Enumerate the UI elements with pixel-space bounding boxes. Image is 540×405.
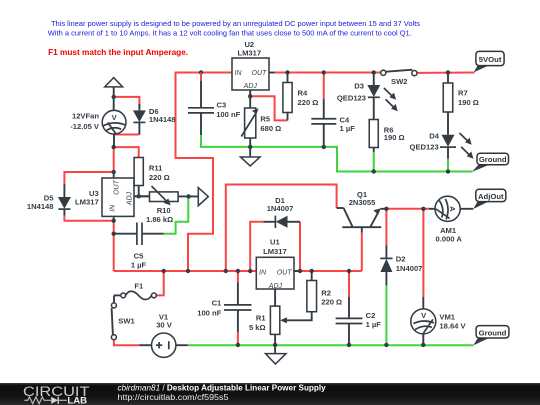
svg-text:1 µF: 1 µF <box>340 124 356 133</box>
resistor R11 <box>134 158 170 197</box>
wire rail to D1 anode <box>250 222 263 271</box>
voltage source V1 30 V <box>140 313 188 358</box>
svg-text:AdjOut: AdjOut <box>478 192 504 201</box>
node C5 left node <box>112 232 116 236</box>
diode D2 1N4007 <box>380 246 422 286</box>
svg-text:F1: F1 <box>134 281 144 290</box>
node C3-U2 IN node <box>199 70 203 74</box>
resistor R10 (rheostat) <box>134 186 198 224</box>
svg-text:SW1: SW1 <box>118 317 135 326</box>
capacitor C1 <box>197 282 251 332</box>
svg-text:IN: IN <box>235 70 243 77</box>
svg-text:680 Ω: 680 Ω <box>260 124 281 133</box>
voltmeter FAN1 12VFan <box>70 87 126 147</box>
switch SW2 <box>381 70 417 87</box>
transistor Q1 2N3055 <box>337 190 387 232</box>
svg-text:R1: R1 <box>256 314 266 323</box>
svg-text:1N4007: 1N4007 <box>396 264 423 273</box>
svg-text:QED123: QED123 <box>410 142 439 151</box>
svg-text:1 µF: 1 µF <box>131 260 147 269</box>
diode D6 1N4148 <box>133 104 176 135</box>
svg-text:ADJ: ADJ <box>243 83 258 90</box>
svg-text:IN: IN <box>109 204 116 212</box>
diode D1 1N4007 <box>263 196 300 228</box>
arrow terminal above fan <box>105 78 123 87</box>
wire VM1 top branch <box>422 209 424 297</box>
node D1 cathode node <box>298 269 302 273</box>
svg-text:-12.05 V: -12.05 V <box>70 122 100 131</box>
wire SW2 to 5VOut flag <box>417 72 475 74</box>
wire D1 cathode down to U1 OUT node <box>299 222 301 271</box>
svg-text:5VOut: 5VOut <box>479 55 502 64</box>
svg-text:1.86 kΩ: 1.86 kΩ <box>146 215 173 224</box>
svg-text:18.64 V: 18.64 V <box>439 322 466 331</box>
svg-text:http://circuitlab.com/cf595s5: http://circuitlab.com/cf595s5 <box>118 393 230 402</box>
svg-text:R2: R2 <box>321 289 331 298</box>
node D3 top node <box>372 70 376 74</box>
svg-text:12VFan: 12VFan <box>72 112 99 121</box>
wire Q1 base down <box>361 233 363 271</box>
resistor R4 <box>283 73 318 121</box>
wire rail to Q1 collector <box>226 185 337 272</box>
wire ground rail from C3 to Ground flag <box>201 135 473 171</box>
wire fan bottom to D6 bottom <box>114 134 139 136</box>
regulator U3 LM317 (rotated) <box>75 172 149 221</box>
capacitor C3 <box>188 73 241 136</box>
svg-text:OUT: OUT <box>277 270 293 277</box>
svg-text:2N3055: 2N3055 <box>349 198 376 207</box>
node Q1 emitter node <box>384 207 388 211</box>
svg-text:LM317: LM317 <box>75 197 99 206</box>
flag Ground <box>472 153 508 172</box>
node D4 ground node <box>446 169 450 173</box>
node C4 bottom node <box>322 145 326 149</box>
svg-text:190 Ω: 190 Ω <box>384 133 405 142</box>
svg-text:D3: D3 <box>354 82 364 91</box>
svg-text:30 V: 30 V <box>156 320 173 329</box>
resistor R5 (rheostat) <box>241 96 281 147</box>
wire bottom ground rail <box>188 344 474 346</box>
capacitor C4 <box>311 99 355 147</box>
svg-text:Ground: Ground <box>479 328 507 337</box>
svg-text:R5: R5 <box>260 114 270 123</box>
resistor R1 (potentiometer) <box>249 306 312 345</box>
node D1 anode node <box>248 269 252 273</box>
wire SW1 bottom to V1 plus <box>114 340 140 346</box>
node U2 ADJ node <box>248 94 252 98</box>
wire C1 bottom to ground rail <box>237 332 239 345</box>
svg-text:ADJ: ADJ <box>127 191 134 206</box>
arrow terminal at R10 wiper <box>198 188 208 206</box>
node input rail node <box>186 269 190 273</box>
svg-text:A: A <box>448 206 457 212</box>
regulator U2 LM317 <box>232 40 275 96</box>
wire U3 OUT node to D5 anode <box>64 172 113 184</box>
capacitor C5 <box>114 223 164 270</box>
svg-text:R11: R11 <box>149 164 163 173</box>
svg-text:IN: IN <box>259 270 267 277</box>
wire C1 top branch <box>237 271 239 282</box>
svg-text:C2: C2 <box>366 311 376 320</box>
svg-text:R4: R4 <box>298 88 308 97</box>
node R1 ground node <box>273 343 277 347</box>
regulator U1 LM317 <box>256 238 299 307</box>
flag 5VOut <box>474 51 505 72</box>
resistor R7 <box>443 73 479 135</box>
svg-text:Ground: Ground <box>479 155 507 164</box>
wire C5 to R10 wiper node green <box>164 196 189 233</box>
node R10 wiper node <box>186 194 190 198</box>
svg-text:This linear power supply is de: This linear power supply is designed to … <box>51 19 420 28</box>
wire R6 bottom green <box>373 152 375 171</box>
svg-text:100 nF: 100 nF <box>197 309 221 318</box>
svg-text:LM317: LM317 <box>263 247 287 256</box>
node R7 top node <box>446 70 450 74</box>
wire bottom input rail <box>114 270 257 272</box>
svg-text:0.000 A: 0.000 A <box>436 234 463 243</box>
ammeter AM1 <box>429 196 473 243</box>
node R2 top node <box>310 269 314 273</box>
diode D5 1N4148 <box>27 184 71 216</box>
svg-text:C5: C5 <box>134 251 144 260</box>
wire fan node down to U3 OUT node <box>113 147 115 172</box>
svg-text:5 kΩ: 5 kΩ <box>249 323 266 332</box>
node VM1 top node <box>421 207 425 211</box>
wire U2 ADJ to R4 bottom <box>250 94 287 120</box>
node C1 top node <box>236 269 240 273</box>
svg-text:cbirdman81 / Desktop Adjustabl: cbirdman81 / Desktop Adjustable Linear P… <box>118 383 327 392</box>
node F1 rail node <box>162 269 166 273</box>
svg-text:C1: C1 <box>212 299 222 308</box>
node fan top <box>112 95 116 99</box>
node C4 top node <box>322 70 326 74</box>
wire C2 top branch <box>348 271 350 297</box>
ground under R5 <box>241 147 261 166</box>
svg-text:ADJ: ADJ <box>268 283 283 290</box>
svg-text:1 µF: 1 µF <box>366 320 382 329</box>
svg-text:LAB: LAB <box>67 395 87 405</box>
svg-text:R7: R7 <box>458 88 468 97</box>
node U3 IN node <box>112 219 116 223</box>
voltmeter VM1 <box>411 297 467 345</box>
node C2 ground node <box>347 343 351 347</box>
node U2 OUT node <box>285 70 289 74</box>
svg-text:1N4148: 1N4148 <box>27 202 54 211</box>
svg-text:D4: D4 <box>429 132 439 141</box>
wire Q1 emitter to AM1 <box>386 208 429 210</box>
node fan bottom <box>112 145 116 149</box>
fuse F1 <box>114 281 156 303</box>
resistor R2 <box>307 271 342 312</box>
switch SW1 <box>111 303 135 340</box>
flag AdjOut <box>473 189 506 209</box>
svg-text:220 Ω: 220 Ω <box>149 173 170 182</box>
node C2 top node <box>347 269 351 273</box>
CircuitLab logo <box>23 384 90 405</box>
node R11-ADJ node <box>137 194 141 198</box>
node C1 ground node <box>236 343 240 347</box>
wire fan node to R11 top <box>114 147 139 157</box>
wire U3 IN node down to bottom rail <box>113 221 115 271</box>
node R6 ground node <box>372 169 376 173</box>
wire U2 IN rail <box>201 72 232 74</box>
node D2 ground node <box>384 343 388 347</box>
svg-text:F1 must match the input Ampera: F1 must match the input Amperage. <box>48 48 188 57</box>
node R5 ground node <box>248 145 252 149</box>
capacitor C2 <box>336 297 382 345</box>
svg-text:VM1: VM1 <box>439 313 455 322</box>
wire C4 top branch <box>323 73 325 100</box>
resistor R6 <box>369 120 404 153</box>
wire fan top to D6 top <box>114 97 140 106</box>
diode D4 QED123 (LED) <box>410 132 474 159</box>
flag Ground <box>473 326 509 346</box>
svg-text:OUT: OUT <box>113 179 120 195</box>
svg-text:190 Ω: 190 Ω <box>458 98 479 107</box>
wire U2 OUT to SW2 <box>275 72 381 74</box>
svg-text:220 Ω: 220 Ω <box>321 297 342 306</box>
svg-text:D2: D2 <box>396 255 406 264</box>
svg-text:1N4007: 1N4007 <box>267 204 294 213</box>
svg-text:1N4148: 1N4148 <box>149 115 176 124</box>
svg-text:QED123: QED123 <box>337 93 366 102</box>
footer bar <box>0 383 540 405</box>
svg-text:100 nF: 100 nF <box>216 110 240 119</box>
wire U1 OUT row <box>294 270 362 272</box>
svg-text:R10: R10 <box>157 206 171 215</box>
svg-text:OUT: OUT <box>252 70 268 77</box>
wire F1 branch <box>156 271 163 295</box>
diode D3 QED123 (LED) <box>337 73 398 120</box>
wire D4 bottom green <box>447 159 449 172</box>
node VM1 ground node <box>421 343 425 347</box>
ground under R1 <box>266 345 287 364</box>
svg-text:SW2: SW2 <box>391 77 407 86</box>
wire D5 cathode to U3 IN node <box>64 216 113 221</box>
svg-text:220 Ω: 220 Ω <box>298 98 319 107</box>
svg-text:LM317: LM317 <box>237 48 261 57</box>
wire D2 bottom green <box>385 285 387 345</box>
svg-text:C3: C3 <box>217 101 227 110</box>
node Q1 feed node <box>224 269 228 273</box>
svg-text:U1: U1 <box>270 238 280 247</box>
node U3 OUT node <box>112 170 116 174</box>
wire input zigzag from C3 node down to bottom rail <box>176 73 214 272</box>
svg-text:With a current of 1 to 10 Amps: With a current of 1 to 10 Amps. It has a… <box>48 29 412 38</box>
wire D2 top branch <box>385 209 387 246</box>
